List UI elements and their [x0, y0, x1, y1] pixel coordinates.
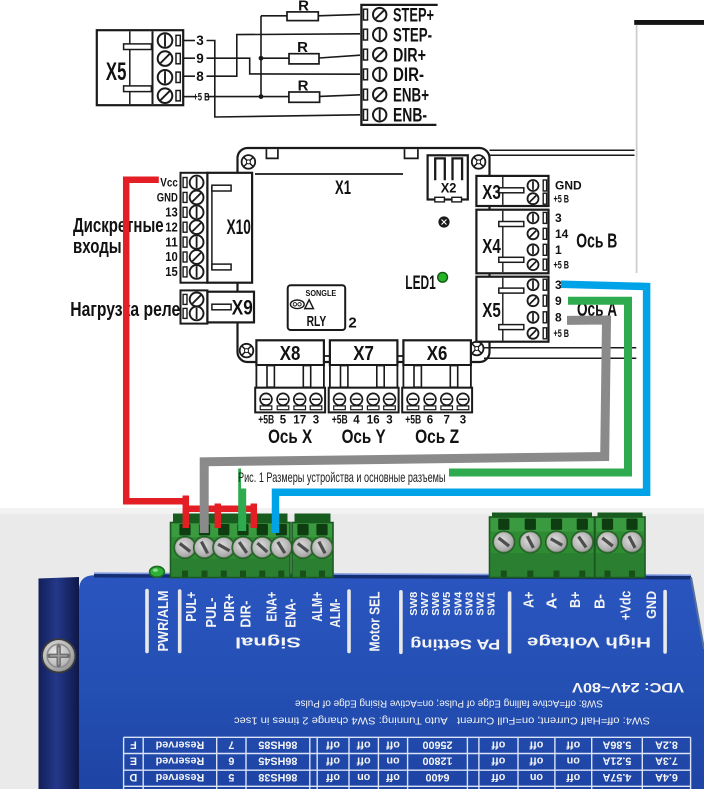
svg-text:PA Setting: PA Setting: [410, 636, 500, 653]
svg-text:LED1: LED1: [405, 273, 436, 294]
svg-text:off: off: [491, 755, 505, 767]
svg-text:3: 3: [386, 414, 392, 426]
svg-text:6400: 6400: [425, 771, 449, 783]
svg-text:STEP-: STEP-: [393, 25, 432, 46]
svg-text:PUL+: PUL+: [184, 592, 200, 622]
svg-text:14: 14: [555, 227, 569, 241]
svg-text:off: off: [491, 771, 505, 783]
svg-text:X1: X1: [335, 178, 351, 199]
svg-text:SONGLE: SONGLE: [306, 288, 337, 298]
svg-text:+Vdc: +Vdc: [619, 591, 635, 621]
svg-text:E: E: [130, 755, 137, 767]
svg-text:+5B: +5B: [405, 414, 421, 426]
svg-text:7: 7: [228, 738, 234, 750]
svg-text:on: on: [357, 771, 370, 783]
svg-text:GND: GND: [157, 193, 178, 205]
svg-text:+5 B: +5 B: [554, 328, 570, 340]
svg-text:ENA+: ENA+: [265, 592, 281, 622]
svg-text:DIR+: DIR+: [393, 45, 426, 66]
svg-text:Дискретные: Дискретные: [73, 214, 164, 237]
svg-text:off: off: [566, 771, 580, 783]
svg-text:SW1: SW1: [485, 592, 497, 616]
svg-text:off: off: [386, 771, 400, 783]
svg-text:ENA-: ENA-: [283, 598, 299, 627]
svg-text:R: R: [298, 78, 309, 95]
svg-text:Ось B: Ось B: [576, 230, 617, 252]
svg-text:+5 B: +5 B: [554, 259, 570, 271]
svg-text:GND: GND: [644, 591, 659, 619]
svg-text:X2: X2: [441, 180, 457, 196]
svg-text:ENB-: ENB-: [393, 106, 427, 127]
svg-text:86HS85: 86HS85: [258, 738, 297, 750]
svg-text:6: 6: [228, 755, 234, 767]
svg-text:Motor SEL: Motor SEL: [368, 591, 384, 651]
svg-text:10: 10: [165, 250, 178, 264]
svg-text:X10: X10: [227, 216, 251, 239]
svg-text:X5: X5: [482, 299, 501, 322]
svg-text:5: 5: [280, 414, 287, 426]
svg-text:Vcc: Vcc: [160, 178, 178, 190]
svg-text:PWR/ALM: PWR/ALM: [156, 591, 172, 652]
svg-text:3: 3: [460, 414, 466, 426]
svg-text:on: on: [567, 755, 580, 767]
svg-text:B-: B-: [592, 594, 609, 609]
svg-text:ENB+: ENB+: [393, 85, 429, 106]
svg-text:A-: A-: [543, 592, 560, 609]
svg-text:Reserved: Reserved: [156, 738, 205, 750]
svg-text:X7: X7: [353, 342, 374, 365]
svg-text:16: 16: [367, 414, 380, 426]
svg-text:X5: X5: [106, 58, 127, 86]
svg-text:входы: входы: [73, 235, 122, 258]
svg-text:3: 3: [555, 278, 562, 292]
svg-text:12: 12: [165, 220, 178, 234]
svg-text:X4: X4: [482, 235, 501, 258]
svg-text:6.4A: 6.4A: [655, 771, 678, 783]
svg-text:off: off: [566, 738, 580, 750]
svg-text:off: off: [529, 755, 543, 767]
svg-text:off: off: [326, 771, 340, 783]
svg-text:R: R: [298, 0, 309, 14]
svg-text:off: off: [326, 755, 340, 767]
svg-text:5: 5: [228, 771, 234, 783]
svg-text:+5B: +5B: [258, 414, 274, 426]
svg-text:F: F: [130, 738, 137, 750]
svg-text:off: off: [326, 738, 340, 750]
svg-text:1: 1: [555, 243, 562, 257]
svg-text:9: 9: [555, 294, 562, 308]
svg-text:8.2A: 8.2A: [655, 738, 678, 750]
svg-text:High Voltage: High Voltage: [527, 634, 651, 651]
svg-text:Signal: Signal: [235, 634, 301, 650]
svg-text:4: 4: [353, 414, 360, 426]
svg-text:86HS45: 86HS45: [258, 755, 297, 767]
svg-text:B+: B+: [567, 591, 584, 608]
svg-text:off: off: [356, 738, 370, 750]
svg-text:DIR-: DIR-: [393, 65, 424, 86]
svg-text:+5B: +5B: [332, 414, 348, 426]
svg-text:X6: X6: [427, 342, 448, 365]
svg-text:GND: GND: [555, 179, 582, 193]
svg-text:D: D: [129, 771, 137, 783]
svg-text:SW8: off=Active falling Edge o: SW8: off=Active falling Edge of Pulse; o…: [294, 698, 603, 709]
svg-text:3: 3: [196, 33, 204, 48]
svg-text:R: R: [297, 39, 308, 56]
svg-text:86HS38: 86HS38: [258, 771, 297, 783]
svg-text:5.21A: 5.21A: [602, 755, 631, 767]
svg-text:15: 15: [165, 265, 178, 279]
svg-text:12800: 12800: [422, 755, 452, 767]
svg-text:A+: A+: [521, 591, 538, 608]
svg-text:2: 2: [348, 314, 356, 331]
svg-text:+5 B: +5 B: [554, 194, 570, 206]
svg-text:off: off: [491, 738, 505, 750]
svg-text:5.86A: 5.86A: [602, 738, 631, 750]
svg-text:13: 13: [165, 206, 178, 220]
svg-text:PUL-: PUL-: [204, 597, 220, 627]
svg-text:Ось X: Ось X: [268, 426, 312, 448]
svg-text:25600: 25600: [422, 738, 452, 750]
svg-text:on: on: [386, 755, 399, 767]
svg-text:Ось Z: Ось Z: [415, 426, 459, 448]
svg-text:9: 9: [196, 51, 204, 66]
svg-text:Reserved: Reserved: [156, 755, 205, 767]
svg-text:off: off: [386, 738, 400, 750]
svg-text:Ось Y: Ось Y: [342, 426, 386, 448]
svg-text:RLY: RLY: [307, 314, 327, 330]
svg-text:X3: X3: [482, 181, 501, 204]
svg-text:SW4: off=Half Current; on=Full: SW4: off=Half Current; on=Full Current A…: [234, 714, 650, 725]
svg-text:3: 3: [313, 414, 319, 426]
svg-text:STEP+: STEP+: [393, 5, 434, 26]
svg-text:7: 7: [443, 414, 449, 426]
svg-text:ALM+: ALM+: [310, 592, 326, 622]
svg-text:8: 8: [555, 311, 562, 325]
svg-text:Рис. 1 Размеры устройства и ос: Рис. 1 Размеры устройства и основные раз…: [238, 470, 446, 485]
svg-text:X8: X8: [280, 342, 301, 365]
svg-text:X9: X9: [232, 296, 253, 319]
svg-text:17: 17: [293, 414, 306, 426]
svg-text:4.57A: 4.57A: [602, 771, 631, 783]
svg-text:3: 3: [555, 211, 562, 225]
svg-text:7.3A: 7.3A: [655, 755, 678, 767]
svg-text:Reserved: Reserved: [156, 771, 205, 783]
svg-text:off: off: [356, 755, 370, 767]
svg-text:off: off: [529, 738, 543, 750]
svg-text:DIR-: DIR-: [239, 600, 255, 627]
svg-text:on: on: [530, 771, 543, 783]
svg-text:6: 6: [427, 414, 433, 426]
svg-text:ALM-: ALM-: [328, 598, 344, 627]
svg-text:VDC: 24V~80V: VDC: 24V~80V: [572, 680, 684, 695]
svg-text:DIR+: DIR+: [222, 594, 238, 622]
svg-text:8: 8: [196, 69, 204, 84]
svg-text:11: 11: [165, 235, 178, 249]
